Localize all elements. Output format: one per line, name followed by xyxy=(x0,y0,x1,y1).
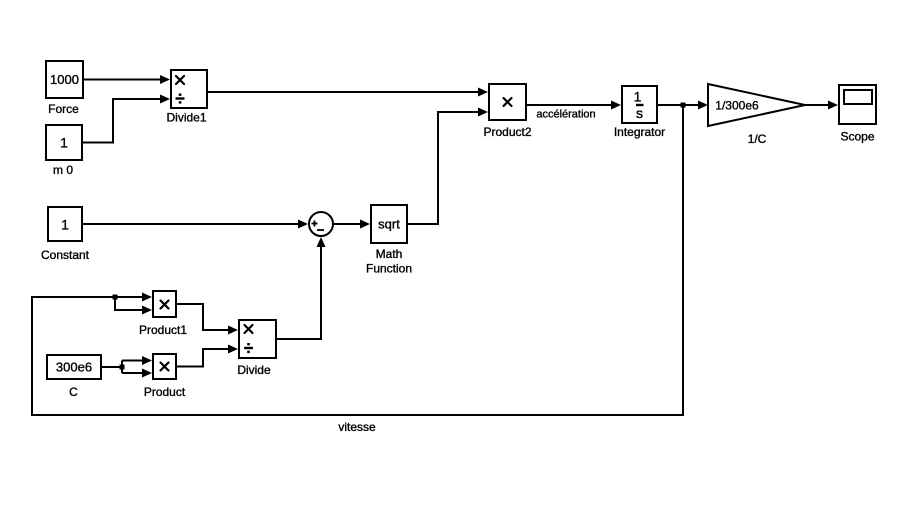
svg-text:1/300e6: 1/300e6 xyxy=(715,99,759,113)
svg-text:Function: Function xyxy=(366,262,412,276)
svg-text:sqrt: sqrt xyxy=(378,217,400,232)
svg-text:m 0: m 0 xyxy=(53,163,73,177)
svg-text:Product2: Product2 xyxy=(483,125,531,139)
svg-text:Divide1: Divide1 xyxy=(166,111,206,125)
svg-text:vitesse: vitesse xyxy=(338,420,376,434)
svg-text:Product: Product xyxy=(144,385,186,399)
svg-text:Divide: Divide xyxy=(237,363,271,377)
svg-text:C: C xyxy=(69,385,78,399)
svg-text:Integrator: Integrator xyxy=(614,125,665,139)
svg-text:Force: Force xyxy=(48,102,79,116)
svg-text:Scope: Scope xyxy=(840,130,874,144)
svg-text:Product1: Product1 xyxy=(139,323,187,337)
svg-text:1/C: 1/C xyxy=(748,132,767,146)
svg-text:s: s xyxy=(636,105,643,121)
svg-text:1: 1 xyxy=(634,89,642,105)
svg-text:1: 1 xyxy=(61,217,69,233)
svg-text:300e6: 300e6 xyxy=(56,360,92,375)
svg-text:1: 1 xyxy=(60,135,68,151)
svg-text:Constant: Constant xyxy=(41,248,90,262)
svg-text:accélération: accélération xyxy=(536,109,595,121)
svg-text:Math: Math xyxy=(376,247,403,261)
svg-text:1000: 1000 xyxy=(50,72,79,87)
